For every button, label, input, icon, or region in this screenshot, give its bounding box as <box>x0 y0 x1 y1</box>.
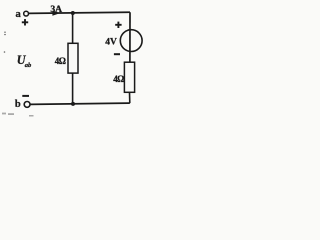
wire left branch lower lead <box>72 73 74 104</box>
svg-text:4Ω: 4Ω <box>113 74 124 84</box>
resistor R1 4ohm left <box>68 43 78 73</box>
value label 4 ohm right <box>113 74 124 84</box>
label 3A <box>50 4 62 15</box>
minus sign of source <box>114 53 120 55</box>
resistor R2 4ohm right <box>124 62 134 92</box>
scan speck left margin <box>4 51 6 53</box>
terminal b <box>24 102 30 108</box>
svg-text:4V: 4V <box>105 38 117 48</box>
wire left branch upper lead <box>72 13 74 44</box>
label b <box>15 99 21 110</box>
voltage source U1 4V circle <box>120 30 142 52</box>
plus sign at terminal a <box>22 19 28 25</box>
wire bottom (b to bottom-right corner) <box>30 103 130 104</box>
label Uab <box>17 53 32 69</box>
svg-text:3A: 3A <box>50 4 62 15</box>
plus sign of source <box>115 22 121 28</box>
scan speck colon left margin <box>4 32 5 36</box>
wire right branch lower lead <box>129 92 131 103</box>
svg-text:ab: ab <box>25 62 32 69</box>
label a <box>16 9 22 20</box>
terminal a <box>24 11 29 16</box>
wire top (a to top-right corner) <box>29 12 131 13</box>
minus sign at terminal b <box>22 95 29 97</box>
svg-text:4Ω: 4Ω <box>55 56 66 66</box>
value label 4V <box>105 38 117 48</box>
node junction dot bottom <box>71 102 75 106</box>
value label 4 ohm left <box>55 56 66 66</box>
faint caption remnant bottom left <box>2 113 34 117</box>
svg-text:b: b <box>15 99 21 110</box>
wire right branch (through source down to resistor) <box>129 12 131 62</box>
current arrow 3A head <box>52 11 60 16</box>
node junction dot top <box>71 11 75 15</box>
svg-text:a: a <box>16 9 22 20</box>
